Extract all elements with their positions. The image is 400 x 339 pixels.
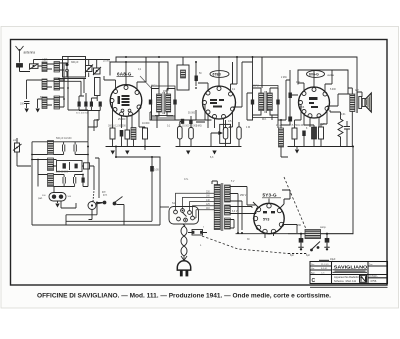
wire right vertical drops [290, 70, 330, 112]
capacitor C4 [120, 130, 124, 137]
IF T2 trimmer right [276, 100, 279, 105]
potentiometer arrow [211, 132, 222, 134]
wire to selector [160, 206, 169, 208]
speaker cone [365, 93, 371, 112]
wire osc row2 [32, 160, 94, 175]
title block row labels left [311, 264, 373, 275]
oscillator bank row3 blob [82, 178, 85, 183]
svg-text:5.000: 5.000 [330, 89, 336, 91]
IF T1 trimmer left [149, 100, 152, 105]
svg-text:pad.: pad. [38, 197, 43, 200]
title block outer [310, 262, 388, 284]
power transformer filament winding1 [225, 205, 231, 215]
resistor R9 [319, 127, 324, 139]
tube V3 label oval [307, 71, 325, 78]
IF T1 primary winding [157, 94, 162, 112]
svg-text:5Y3: 5Y3 [263, 218, 269, 222]
frame double line bottom right [310, 286, 388, 288]
IF transformer T2 frame [253, 57, 279, 120]
twisted cord [181, 224, 187, 256]
svg-text:M.F.2: M.F.2 [253, 86, 259, 88]
wire IF1 top feeds [146, 57, 159, 89]
wire bus under V2 resistors [176, 146, 241, 148]
svg-text:6V6: 6V6 [300, 106, 305, 109]
label tap voltages [206, 192, 211, 211]
wire field coil leads [288, 234, 353, 238]
wire blob row leads [79, 93, 100, 111]
junction dots stage1 [63, 79, 69, 100]
wire under coil can [58, 79, 86, 97]
IF T2 primary winding [259, 93, 264, 111]
svg-text:300Ω 0,1 50.000: 300Ω 0,1 50.000 [108, 125, 126, 128]
wire transformer primary top [212, 181, 217, 185]
wire top bus [116, 57, 357, 92]
dashed line speaker field [284, 177, 306, 229]
svg-text:8-3-41: 8-3-41 [321, 268, 328, 270]
svg-text:C: C [312, 278, 316, 284]
ground V2 bus2 [186, 151, 190, 155]
wire speaker top [357, 92, 362, 97]
svg-text:0,01: 0,01 [296, 82, 301, 84]
output transformer winding [350, 94, 355, 112]
wire AVC line [150, 119, 211, 121]
capacitor AVC blob [181, 119, 184, 124]
mains plug body [177, 261, 190, 270]
wire V1 grid cap lead [125, 62, 127, 85]
micro labels sprinkle2 [118, 106, 336, 261]
ground symbol left2 [36, 109, 40, 113]
wire IF2 secondary down [272, 80, 290, 128]
wire V1 pin leads down [113, 103, 146, 131]
field coil choke [305, 230, 321, 239]
svg-text:App.: App. [311, 272, 316, 275]
svg-text:M.F.: M.F. [262, 118, 267, 121]
oscillator coil can box [63, 57, 86, 78]
ground V1 cathode [111, 151, 115, 155]
wire AVC segments [155, 116, 205, 128]
svg-text:A.P.: A.P. [355, 89, 359, 92]
tube V1 electrode stack [118, 95, 130, 106]
resistor R8 cathode dark [312, 127, 317, 139]
potentiometer box [220, 124, 231, 143]
tube V2 envelope [203, 86, 236, 119]
title block description [334, 275, 363, 283]
ground padder [55, 204, 59, 208]
oscillator bank row1 cap1 [63, 142, 65, 155]
wire padder leads [54, 187, 77, 209]
micro labels sprinkle [13, 61, 359, 258]
svg-text:500 pF 10/130: 500 pF 10/130 [56, 137, 72, 140]
svg-text:1 M: 1 M [246, 126, 250, 129]
svg-text:1 MΩ: 1 MΩ [196, 126, 202, 128]
ground symbol left1 [25, 109, 29, 113]
wire stage1 top bus [34, 60, 111, 64]
svg-text:Apparecchio Radiofonico: Apparecchio Radiofonico [334, 275, 363, 279]
IF T1 secondary winding [166, 94, 171, 112]
wire band switch rails [64, 57, 88, 140]
wire bus under V3 resistors [288, 146, 353, 148]
svg-text:Ver.: Ver. [311, 267, 315, 270]
wire V1 stage box [110, 62, 168, 90]
oscillator padder [181, 70, 186, 78]
svg-text:450: 450 [297, 224, 302, 227]
wire under V2 left [180, 116, 191, 147]
wire V1 pin leads up [104, 62, 146, 91]
capacitor C11 [302, 131, 305, 137]
tube V2 label oval [210, 71, 229, 78]
svg-text:INT.: INT. [102, 192, 106, 194]
svg-text:5Y3-G: 5Y3-G [263, 193, 278, 198]
tube V1 pins [110, 86, 141, 117]
power transformer filament winding2 [225, 218, 231, 229]
resistor R4 [178, 127, 183, 140]
trimmer capacitor aerial [29, 64, 39, 70]
wire V3 pin leads down [295, 105, 328, 129]
resistor R1 [110, 128, 115, 139]
svg-text:camp.: camp. [320, 227, 327, 229]
speaker voice coil [359, 97, 365, 109]
tube V4 label 5Y3-G [262, 193, 281, 198]
ground V2 bus [212, 151, 216, 155]
tube V4 pins [253, 204, 283, 234]
oscillator bank row2 coil [48, 158, 54, 171]
svg-text:vol.: vol. [13, 140, 17, 142]
output transformer core [356, 93, 357, 114]
IF T1 trimmer right [173, 100, 176, 105]
wire osc rails left [32, 142, 38, 225]
wire pot leads [211, 120, 226, 147]
junction dots osc [31, 154, 89, 176]
wire tuning gang leads [89, 60, 98, 102]
plug neck [181, 256, 187, 261]
wire osc bank to mixer [88, 111, 99, 142]
resistor tone zigzag [338, 117, 343, 139]
tube V3 electrode stack [309, 97, 318, 108]
svg-text:OFFICINE DI SAVIGLIANO. — Mod.: OFFICINE DI SAVIGLIANO. — Mod. 111. — Pr… [37, 293, 331, 300]
IF transformer T1 frame [152, 89, 176, 121]
border frame [11, 40, 388, 286]
wire row3 coils [38, 97, 65, 108]
oscillator bank row3 cap1 [63, 175, 65, 187]
trimmer circle bottom [88, 190, 103, 220]
antenna symbol [16, 46, 24, 63]
capacitor tone [344, 121, 350, 139]
IF T2 core [265, 91, 266, 113]
svg-text:5 V: 5 V [231, 181, 235, 183]
oscillator bank row2 trimmer right [84, 163, 90, 169]
mains plug prongs [180, 270, 188, 276]
tuning gang section1 [85, 65, 93, 73]
tube V1 filament circles [121, 109, 131, 112]
wire V2 grid lead [218, 57, 220, 86]
svg-text:6,3 V: 6,3 V [232, 211, 238, 213]
IF T2 secondary winding [267, 93, 272, 111]
svg-text:C.S.: C.S. [184, 179, 189, 181]
resistor R3 [143, 128, 148, 139]
wire output transformer leads [348, 88, 352, 147]
volume control left [13, 138, 22, 157]
wire V4 cathode to filter [265, 225, 297, 239]
title block monogram [360, 275, 367, 282]
svg-text:C.T.: C.T. [321, 273, 325, 275]
svg-text:100 30/300: 100 30/300 [56, 171, 69, 174]
svg-text:20.000: 20.000 [103, 61, 111, 63]
title block number cells [370, 274, 379, 283]
svg-text:antenna: antenna [24, 51, 36, 55]
svg-text:8µF: 8µF [306, 255, 311, 257]
power transformer primary winding [214, 185, 220, 230]
wire osc rails right [88, 142, 99, 198]
tube V1 6A8-G envelope [110, 85, 142, 117]
capacitor blob row g4 [99, 102, 102, 107]
coil L3 aerial band2 [42, 79, 47, 90]
filter capacitor C14 [324, 238, 329, 251]
wire V2 pin leads up [198, 57, 253, 107]
junction dots heater [96, 156, 153, 204]
wire V3 grid lead [313, 70, 315, 87]
svg-text:INT.: INT. [103, 194, 108, 197]
filter capacitor C13 [298, 238, 303, 251]
wire row1 coils [39, 63, 65, 70]
tube V2 electrode stack [210, 99, 224, 108]
IF transformer T1 can [152, 86, 176, 118]
svg-text:Tav.: Tav. [369, 264, 373, 266]
wire left column join [17, 157, 31, 166]
wire V3 pin leads up [298, 70, 348, 106]
oscillator bank row1 cap2 [74, 142, 76, 155]
switch on-off [100, 197, 124, 206]
wire bus under V1 resistors [106, 146, 160, 148]
choke AF left of V3 [279, 120, 289, 157]
wire B- bottom rail [236, 233, 353, 235]
wire V4 leads [268, 199, 270, 204]
fuse [188, 230, 207, 236]
coil L2 aerial band1 secondary [54, 62, 60, 73]
svg-text:0756: 0756 [371, 279, 377, 283]
wire B+ right rail [352, 147, 354, 234]
voltage selector plug [169, 207, 199, 225]
ground V1 bus [125, 151, 129, 155]
svg-text:250 V: 250 V [240, 194, 247, 197]
svg-text:8µF: 8µF [290, 255, 295, 257]
power transformer core [221, 183, 223, 231]
oscillator bank row2 box [57, 161, 83, 172]
capacitor C5 electrolytic [131, 128, 136, 140]
oscillator bank row1 coil [48, 141, 54, 155]
svg-text:0,05: 0,05 [154, 169, 159, 172]
svg-text:0,5 250Ω 400: 0,5 250Ω 400 [290, 124, 305, 127]
svg-text:N.613.-: N.613.- [370, 274, 379, 278]
wire resistor row1 to bus [113, 137, 146, 151]
wire AVC drops [150, 110, 205, 120]
wire tone network [330, 112, 347, 147]
wire V2 pin leads down [205, 105, 233, 131]
capacitor blob row g1 [78, 102, 81, 107]
capacitor blob row g2 [84, 102, 87, 107]
coil L6 aerial band3 secondary [54, 96, 60, 109]
coil L1 aerial band1 [42, 62, 47, 72]
capacitor blob row g3 [90, 102, 93, 107]
svg-text:6TE8: 6TE8 [213, 73, 221, 77]
wire V3 stage box [298, 70, 348, 94]
capacitor grid V3 [281, 80, 298, 125]
wire heater run upper [66, 157, 152, 221]
IF T2 trimmer left [251, 100, 254, 105]
svg-text:2 MΩ: 2 MΩ [281, 77, 287, 79]
wire V4 plate leads up [253, 190, 290, 209]
IF T1 core [163, 92, 164, 114]
svg-text:16µF: 16µF [330, 258, 336, 261]
svg-text:0,1 25.000 50.000: 0,1 25.000 50.000 [178, 125, 198, 128]
svg-text:Schema Mod. 111: Schema Mod. 111 [334, 279, 357, 283]
tube V4 electrode bars [263, 211, 275, 213]
svg-text:10.000: 10.000 [142, 122, 150, 125]
svg-text:21-2-41: 21-2-41 [321, 264, 329, 266]
svg-text:8 µF: 8 µF [320, 124, 325, 126]
oscillator grid box [95, 78, 101, 96]
wire osc row3 [38, 175, 88, 187]
svg-text:uscita: uscita [327, 73, 334, 77]
junction dots buses [31, 56, 302, 235]
potentiometer element [223, 128, 228, 140]
power transformer HV secondary [225, 185, 231, 202]
title block micro subtitle [335, 271, 366, 272]
ground V3 [295, 150, 299, 154]
resistor R7 [292, 128, 297, 139]
svg-text:300 pF: 300 pF [71, 61, 79, 64]
title block top tab marks [319, 260, 329, 262]
wire under V3 [295, 125, 322, 149]
svg-text:SAVIGLIANO: SAVIGLIANO [334, 264, 368, 269]
tube V3 envelope [299, 87, 330, 118]
wire osc bottom bus [32, 224, 160, 226]
wire mid bus [116, 147, 160, 158]
coil L5 aerial band3 [42, 97, 47, 109]
tone switch bottom [288, 242, 320, 254]
dashed line pilot [202, 236, 288, 254]
capacitor C8 blob [189, 120, 192, 125]
wire under V2 right [234, 122, 239, 147]
wire osc row1 [32, 142, 88, 155]
wire HV secondary to rectifier [230, 187, 256, 234]
wire heater run lower [124, 157, 160, 225]
tube V2 pins [203, 87, 235, 119]
tube V4 envelope [254, 203, 284, 233]
junction dots main [87, 56, 354, 235]
svg-text:0,01: 0,01 [341, 114, 346, 116]
dial cord diagonal [140, 76, 152, 89]
svg-text:50 1.000 50: 50 1.000 50 [76, 113, 88, 115]
padder twin trimmer [49, 193, 66, 204]
svg-text:Dis.: Dis. [311, 264, 315, 266]
oscillator shield box [177, 57, 189, 90]
oscillator bank row3 coil [48, 174, 54, 187]
wire filament winding leads [230, 207, 257, 229]
wire row2 coils [27, 80, 65, 99]
svg-text:50.000: 50.000 [188, 113, 196, 115]
coil L4 aerial band2 secondary [54, 78, 60, 90]
wire V2 plate to IF2 [247, 93, 253, 120]
tuning gang section2 [93, 67, 101, 75]
svg-text:M.F.1: M.F.1 [151, 86, 157, 88]
capacitor grid blob [195, 62, 198, 86]
capacitor antenna coupling [17, 64, 31, 72]
resistor R6 [237, 127, 241, 139]
svg-text:6A8-G: 6A8-G [117, 72, 132, 77]
wire switch left drop [66, 203, 103, 226]
capacitor ground left [24, 102, 30, 109]
resistor R5 [189, 128, 194, 140]
wire selector taps [176, 193, 216, 218]
svg-text:25.000: 25.000 [118, 118, 126, 121]
wire V2 screen feeds [233, 57, 263, 88]
tube V3 pins [299, 88, 330, 118]
IF transformer T2 can [253, 86, 279, 118]
resistor R2 [125, 130, 130, 139]
oscillator bank row3 cap2 [74, 175, 76, 187]
capacitor mid blob [150, 166, 154, 172]
svg-text:25 µF: 25 µF [276, 125, 283, 127]
